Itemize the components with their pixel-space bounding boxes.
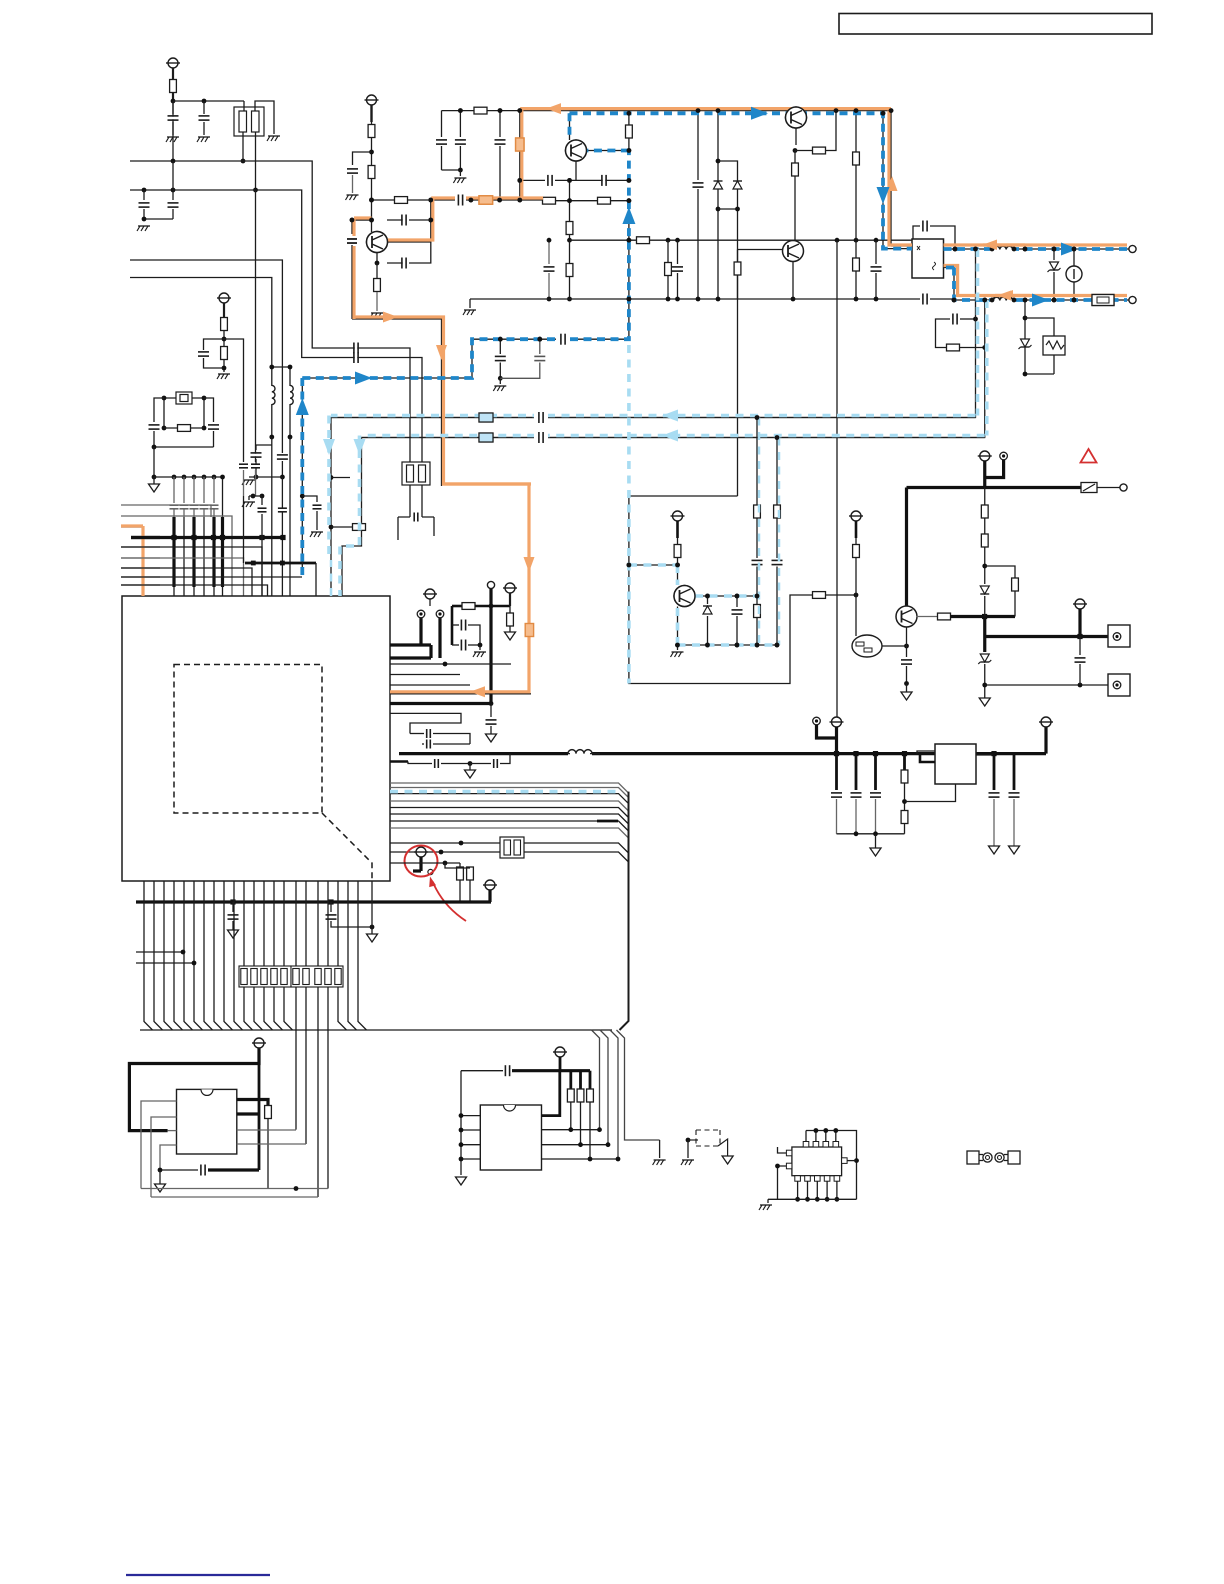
wire row596 — [695, 595, 757, 597]
wire — [569, 240, 571, 264]
resistor — [474, 107, 487, 114]
thick pin — [542, 1071, 560, 1116]
node — [369, 198, 374, 203]
transistor Q1 — [367, 232, 388, 253]
pin stub right — [842, 1158, 848, 1164]
resistor — [855, 111, 857, 152]
node — [202, 99, 207, 104]
orange arrows — [546, 103, 561, 114]
node — [627, 297, 632, 302]
resistor array RA1 — [239, 966, 291, 987]
filter component — [234, 107, 264, 136]
node — [755, 415, 760, 420]
wire rows exiting IC right — [390, 783, 629, 793]
resistor — [566, 222, 573, 235]
node — [567, 238, 572, 243]
wire — [569, 113, 571, 140]
wire bottom rows — [141, 1188, 328, 1190]
connector plug right — [995, 1153, 1004, 1162]
wire — [353, 152, 372, 165]
RC snubber — [960, 318, 976, 320]
node — [428, 198, 433, 203]
node — [241, 159, 246, 164]
ground — [138, 225, 150, 227]
power symbol — [505, 583, 515, 593]
wire orange row 694 — [390, 693, 531, 695]
capacitor redraw blue339 — [556, 332, 570, 346]
node — [666, 297, 671, 302]
wire to IC1 pins — [295, 881, 297, 1130]
terminal — [1120, 484, 1127, 491]
wire light blue row1 underlay — [331, 417, 976, 419]
ground — [198, 136, 210, 138]
resistor gnd — [509, 606, 511, 613]
caps on blue row — [498, 337, 503, 342]
wire row 249 — [944, 248, 1130, 250]
thick x984 down — [983, 617, 986, 653]
resistor col x904 — [903, 754, 906, 770]
wire row y200 — [372, 199, 544, 201]
node — [171, 99, 176, 104]
wire — [164, 398, 176, 428]
wire — [575, 161, 577, 180]
resistor — [674, 545, 681, 558]
wire bus rows left — [121, 505, 211, 517]
capacitor series — [558, 333, 568, 345]
wire — [154, 446, 214, 448]
transistor Q2 redraw — [786, 107, 807, 128]
crystal — [176, 392, 192, 404]
resistor loop — [985, 566, 1015, 578]
wire jog to x628.9 — [629, 496, 812, 684]
inductor — [993, 297, 1013, 300]
capacitor — [415, 513, 417, 522]
node — [904, 681, 909, 686]
capacitor — [459, 195, 462, 206]
terminal thick column x491 — [487, 581, 494, 588]
resistor array RA2 — [291, 966, 343, 987]
capacitor redraw row200 — [455, 193, 466, 207]
capacitor — [875, 240, 877, 264]
resistor col777 — [776, 438, 778, 506]
node — [627, 238, 632, 243]
wire cap legs — [441, 111, 443, 137]
resistor columns — [569, 1071, 572, 1089]
diode — [980, 586, 989, 594]
wire bus to relay — [617, 1030, 660, 1140]
lightblue row comps redraw — [534, 410, 548, 425]
capacitor — [160, 1145, 177, 1170]
zener D1 — [1053, 249, 1055, 260]
caps pair — [451, 606, 454, 645]
node — [162, 396, 167, 401]
thick feed — [983, 461, 986, 488]
node — [142, 188, 147, 193]
terminal — [417, 610, 425, 618]
wire — [272, 367, 290, 386]
resistor — [221, 318, 228, 331]
power symbol — [555, 1047, 565, 1057]
resistor orange vertical — [519, 111, 521, 200]
chassis triangle — [875, 834, 877, 848]
wire row645 — [678, 644, 778, 646]
wire — [795, 150, 812, 152]
rows to filter component 3 — [390, 842, 500, 844]
capacitor — [355, 343, 358, 354]
resistor orange redraw — [479, 196, 493, 204]
ground — [654, 1159, 666, 1161]
resistor — [853, 545, 860, 558]
wire rows mid — [390, 663, 511, 665]
resistor blue boxed — [479, 433, 493, 442]
node — [952, 298, 957, 303]
wire under orange — [121, 527, 143, 596]
capacitor — [1079, 637, 1081, 656]
ground — [469, 299, 471, 308]
wire x891 — [890, 111, 892, 246]
capacitor — [232, 902, 234, 912]
ground — [347, 194, 359, 196]
IC2 box — [177, 1089, 237, 1154]
resistor — [395, 197, 408, 204]
orange signal path — [522, 109, 891, 198]
wire — [686, 1138, 691, 1143]
capacitor redraw q1 — [347, 240, 357, 242]
small cluster caps — [239, 465, 248, 467]
power symbol — [980, 451, 990, 461]
wire emitter — [792, 262, 794, 300]
diode pair — [717, 111, 719, 299]
ground — [767, 1199, 769, 1203]
resistor — [374, 279, 381, 292]
digital transistor Q6 — [852, 635, 882, 657]
ground — [371, 312, 383, 314]
wire bus line A — [130, 161, 410, 463]
thick stub bus2 — [245, 562, 316, 565]
transistor Q4 — [783, 241, 804, 262]
wire row y240 — [570, 239, 913, 241]
wire — [352, 219, 372, 221]
inductor — [272, 385, 275, 404]
transformer box — [912, 239, 944, 278]
capacitor — [499, 111, 501, 137]
wire top row — [806, 1131, 857, 1200]
orange over coils — [983, 243, 1025, 246]
thick row 636 — [985, 635, 1108, 638]
power symbol top-left — [168, 58, 178, 68]
chassis triangle — [979, 698, 990, 706]
wire — [153, 447, 155, 477]
current source — [1073, 249, 1075, 300]
resistor — [637, 237, 650, 244]
transistor Q2 — [786, 107, 807, 128]
wire bus line C — [130, 260, 282, 452]
transistor Q3 — [674, 586, 695, 607]
resistor blue boxed — [479, 413, 493, 422]
capacitor — [204, 398, 214, 422]
pin stubs bottom — [795, 1176, 801, 1182]
thick row 616 — [950, 615, 1015, 618]
dark blue signal path — [300, 378, 304, 575]
zener D3 — [980, 654, 989, 662]
capacitor — [256, 445, 272, 450]
capacitor series row299 — [924, 294, 927, 305]
wire to jack — [985, 684, 1108, 686]
wire — [154, 476, 223, 478]
resistor — [265, 1106, 272, 1119]
dark blue arrows — [296, 398, 309, 415]
wire — [587, 150, 629, 152]
IC U1 outline — [122, 596, 390, 881]
wire base row — [352, 219, 372, 221]
thick power bus — [131, 536, 283, 539]
node — [705, 594, 710, 599]
wire — [370, 105, 372, 122]
power symbol — [1075, 599, 1085, 609]
thick feed — [1078, 609, 1081, 637]
wire row y299 — [470, 298, 918, 300]
wire row 833 — [837, 833, 905, 835]
node — [982, 564, 987, 569]
terminal — [1129, 296, 1136, 303]
light blue signal paths — [976, 249, 980, 416]
inductor — [290, 385, 293, 404]
power symbol — [851, 511, 861, 521]
capacitor — [172, 101, 174, 114]
thick bus y487 — [907, 486, 1082, 489]
node row — [152, 475, 157, 480]
wire — [795, 128, 797, 145]
capacitor — [355, 352, 358, 363]
power symbol — [832, 717, 842, 727]
resistor orange — [479, 196, 493, 204]
wire x883 — [882, 113, 884, 248]
transistor Q1 redraw — [367, 232, 388, 253]
wire branch right — [224, 339, 244, 462]
transistor Q3 redraw — [674, 586, 695, 607]
cap columns right — [993, 754, 996, 790]
power symbol — [425, 589, 435, 599]
node — [469, 198, 474, 203]
varistor — [1025, 318, 1054, 336]
footer line — [126, 1574, 270, 1576]
power symbol — [219, 293, 229, 303]
ground — [243, 479, 255, 481]
power symbol — [673, 511, 683, 521]
wire left pins — [778, 1147, 787, 1153]
wire top row y110 — [442, 110, 892, 112]
terminal — [1129, 245, 1136, 252]
wire pins right — [237, 1129, 296, 1131]
thick feed — [817, 725, 837, 738]
thick ground bus under IC — [136, 900, 491, 903]
wire — [223, 303, 225, 317]
resistor — [566, 264, 573, 277]
fuse — [1081, 483, 1097, 493]
wire — [371, 881, 373, 927]
thick segment on row — [597, 820, 618, 823]
wire — [173, 100, 244, 102]
wire box out — [944, 268, 955, 301]
capacitor — [736, 596, 738, 607]
ground — [268, 135, 280, 137]
wire pins left — [460, 1071, 462, 1175]
capacitor — [540, 432, 543, 443]
capacitor — [548, 240, 550, 264]
node — [953, 247, 958, 252]
node — [547, 297, 552, 302]
wire light blue row2 underlay — [362, 437, 985, 439]
capacitor — [154, 398, 164, 422]
red annotation arrow — [433, 882, 467, 922]
node — [269, 435, 274, 440]
connector plug left — [967, 1151, 979, 1164]
thick loop — [129, 1048, 259, 1131]
jack J1 — [1108, 625, 1130, 647]
resistor — [667, 240, 669, 263]
power symbol — [485, 880, 495, 890]
wire bus to IC3 — [592, 1030, 600, 1130]
resistor — [628, 113, 630, 125]
wire base — [738, 249, 783, 251]
thick rows to terminals — [390, 643, 431, 646]
capacitor — [506, 1065, 509, 1076]
capacitor — [387, 262, 404, 264]
wire pins — [917, 751, 935, 754]
capacitor — [351, 220, 353, 234]
wire bus line B — [130, 190, 422, 463]
IC U1 inner dashed body — [174, 665, 322, 814]
transistor Q5 redraw — [566, 140, 587, 161]
wire — [172, 161, 174, 190]
chassis triangle — [722, 1156, 733, 1164]
cap columns under bus — [835, 754, 838, 790]
inductor — [993, 246, 1013, 249]
power symbol — [1041, 717, 1051, 727]
node — [675, 563, 680, 568]
wire light blue branch — [629, 564, 678, 566]
resistor col757 — [756, 418, 758, 506]
power symbol — [254, 1038, 264, 1048]
wire — [569, 180, 571, 222]
thick top right block — [905, 488, 908, 607]
node — [222, 337, 227, 342]
wire — [676, 521, 679, 538]
IC4 box — [792, 1147, 842, 1176]
pin capacitors — [173, 477, 175, 503]
IC3 box — [480, 1105, 541, 1170]
res row y200 — [543, 200, 629, 202]
wire orange/blue to box — [883, 248, 912, 250]
jack J2 — [1108, 674, 1130, 696]
resistor pair — [390, 862, 460, 864]
resistor — [794, 151, 796, 164]
terminal — [1000, 452, 1008, 460]
rows over orange col143 — [131, 536, 160, 539]
title block box — [839, 14, 1152, 35]
terminal — [813, 717, 821, 725]
capacitor — [490, 704, 492, 718]
thick row 703 — [390, 702, 491, 705]
dashed component — [696, 1130, 720, 1146]
wire — [1025, 373, 1054, 375]
ground — [218, 373, 230, 375]
resistor — [917, 616, 939, 618]
fuse — [1092, 295, 1114, 306]
chassis triangle — [159, 1170, 161, 1184]
cap to gnd x317 — [300, 494, 305, 499]
ground — [167, 136, 179, 138]
wire — [144, 218, 173, 220]
wire filter tail — [255, 190, 257, 462]
node — [369, 150, 374, 155]
filter component 3 — [500, 837, 524, 858]
wire x837 long — [836, 240, 838, 754]
capacitor — [330, 902, 332, 912]
capacitor — [143, 190, 145, 200]
meander rows — [390, 713, 461, 733]
node — [982, 683, 987, 688]
wire trunk — [620, 792, 629, 1030]
node — [222, 366, 227, 371]
wire — [243, 101, 245, 111]
node — [854, 593, 859, 598]
wire row 300 — [954, 299, 1090, 301]
filter component 2 — [402, 462, 430, 485]
thick row 606 — [429, 599, 431, 606]
wire dark blue underlay — [301, 378, 303, 575]
resistor base bias — [737, 250, 739, 263]
wire x628.9 down — [628, 201, 630, 340]
capacitor — [906, 646, 908, 657]
stubs — [136, 951, 183, 953]
thick supply bus — [399, 752, 1046, 755]
resistor — [855, 240, 857, 258]
thick bus — [559, 1057, 562, 1071]
res stub x333 — [329, 525, 334, 530]
fuse redraw — [1092, 295, 1114, 306]
node redraw over paths — [369, 198, 374, 203]
pin fan collector bus — [140, 1029, 612, 1031]
wire bus line D — [130, 278, 272, 386]
wire — [242, 132, 244, 161]
wire pins left — [141, 1101, 177, 1189]
resistor — [164, 427, 204, 429]
wire collector — [387, 220, 431, 242]
node — [254, 475, 259, 480]
wire — [855, 521, 858, 538]
pin stubs left — [786, 1150, 792, 1156]
capacitor — [540, 412, 543, 423]
wire emitter — [376, 253, 378, 264]
coil redraw — [990, 247, 1016, 252]
resistor — [221, 347, 228, 360]
ground — [677, 645, 679, 650]
capacitor — [203, 101, 205, 114]
cap row y180 — [520, 179, 545, 181]
chassis triangle — [456, 1177, 467, 1185]
regulator box — [935, 744, 976, 784]
thick pins right — [237, 1100, 268, 1107]
power symbol annotated — [416, 847, 426, 857]
red warning triangle — [1081, 449, 1097, 463]
capacitor — [277, 456, 288, 459]
chassis triangle — [906, 684, 908, 693]
capacitor x698 — [697, 111, 699, 180]
resistor chain x984 — [984, 488, 986, 506]
node — [627, 111, 632, 116]
capacitor — [677, 240, 679, 264]
